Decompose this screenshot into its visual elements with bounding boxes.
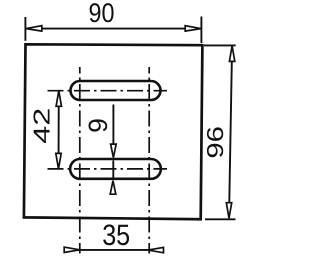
- dim 90 extension line left: [24, 17, 26, 41]
- centerline left vertical (slot end arc axis): [79, 67, 81, 254]
- svg-text:96: 96: [202, 126, 228, 159]
- dim 9 arrow upper (points down at slot top edge): [111, 144, 117, 158]
- centerline right vertical (slot end arc axis): [148, 67, 150, 254]
- dim 96 dimension line: [229, 46, 232, 218]
- centerline S2 horizontal: [48, 168, 168, 170]
- dim 9 dimension line upper segment: [112, 105, 114, 145]
- svg-text:9: 9: [83, 118, 113, 133]
- dim 96 extension line top: [204, 44, 236, 46]
- dim 90 dimension line: [26, 28, 201, 30]
- dim 9 line through slot: [112, 161, 114, 178]
- dim 35 dimension line: [64, 249, 164, 251]
- dim 35 arrow right (outside, points left): [148, 247, 164, 252]
- dim 90 arrow right: [185, 26, 201, 31]
- dim 96 arrow top: [229, 46, 234, 62]
- svg-text:42: 42: [28, 108, 54, 144]
- slot S2 (lower): [70, 159, 161, 179]
- dim 90 extension line right: [200, 17, 202, 44]
- dim 90 arrow left: [26, 26, 42, 31]
- svg-text:90: 90: [89, 0, 115, 28]
- svg-text:35: 35: [102, 219, 130, 252]
- plate outline: [24, 44, 203, 219]
- slot S1 (upper): [71, 81, 161, 100]
- centerline S1 horizontal: [48, 90, 168, 92]
- dim 35 arrow left (outside, points right): [64, 247, 80, 252]
- dim 9 arrow lower (points up at slot bottom edge): [110, 181, 116, 195]
- dim 42 arrow bottom: [56, 153, 61, 169]
- dim 42 dimension line: [58, 91, 60, 169]
- dim 42 arrow top: [56, 91, 61, 107]
- dim 96 extension line bottom: [205, 218, 236, 220]
- dim 96 arrow bottom: [226, 203, 231, 219]
